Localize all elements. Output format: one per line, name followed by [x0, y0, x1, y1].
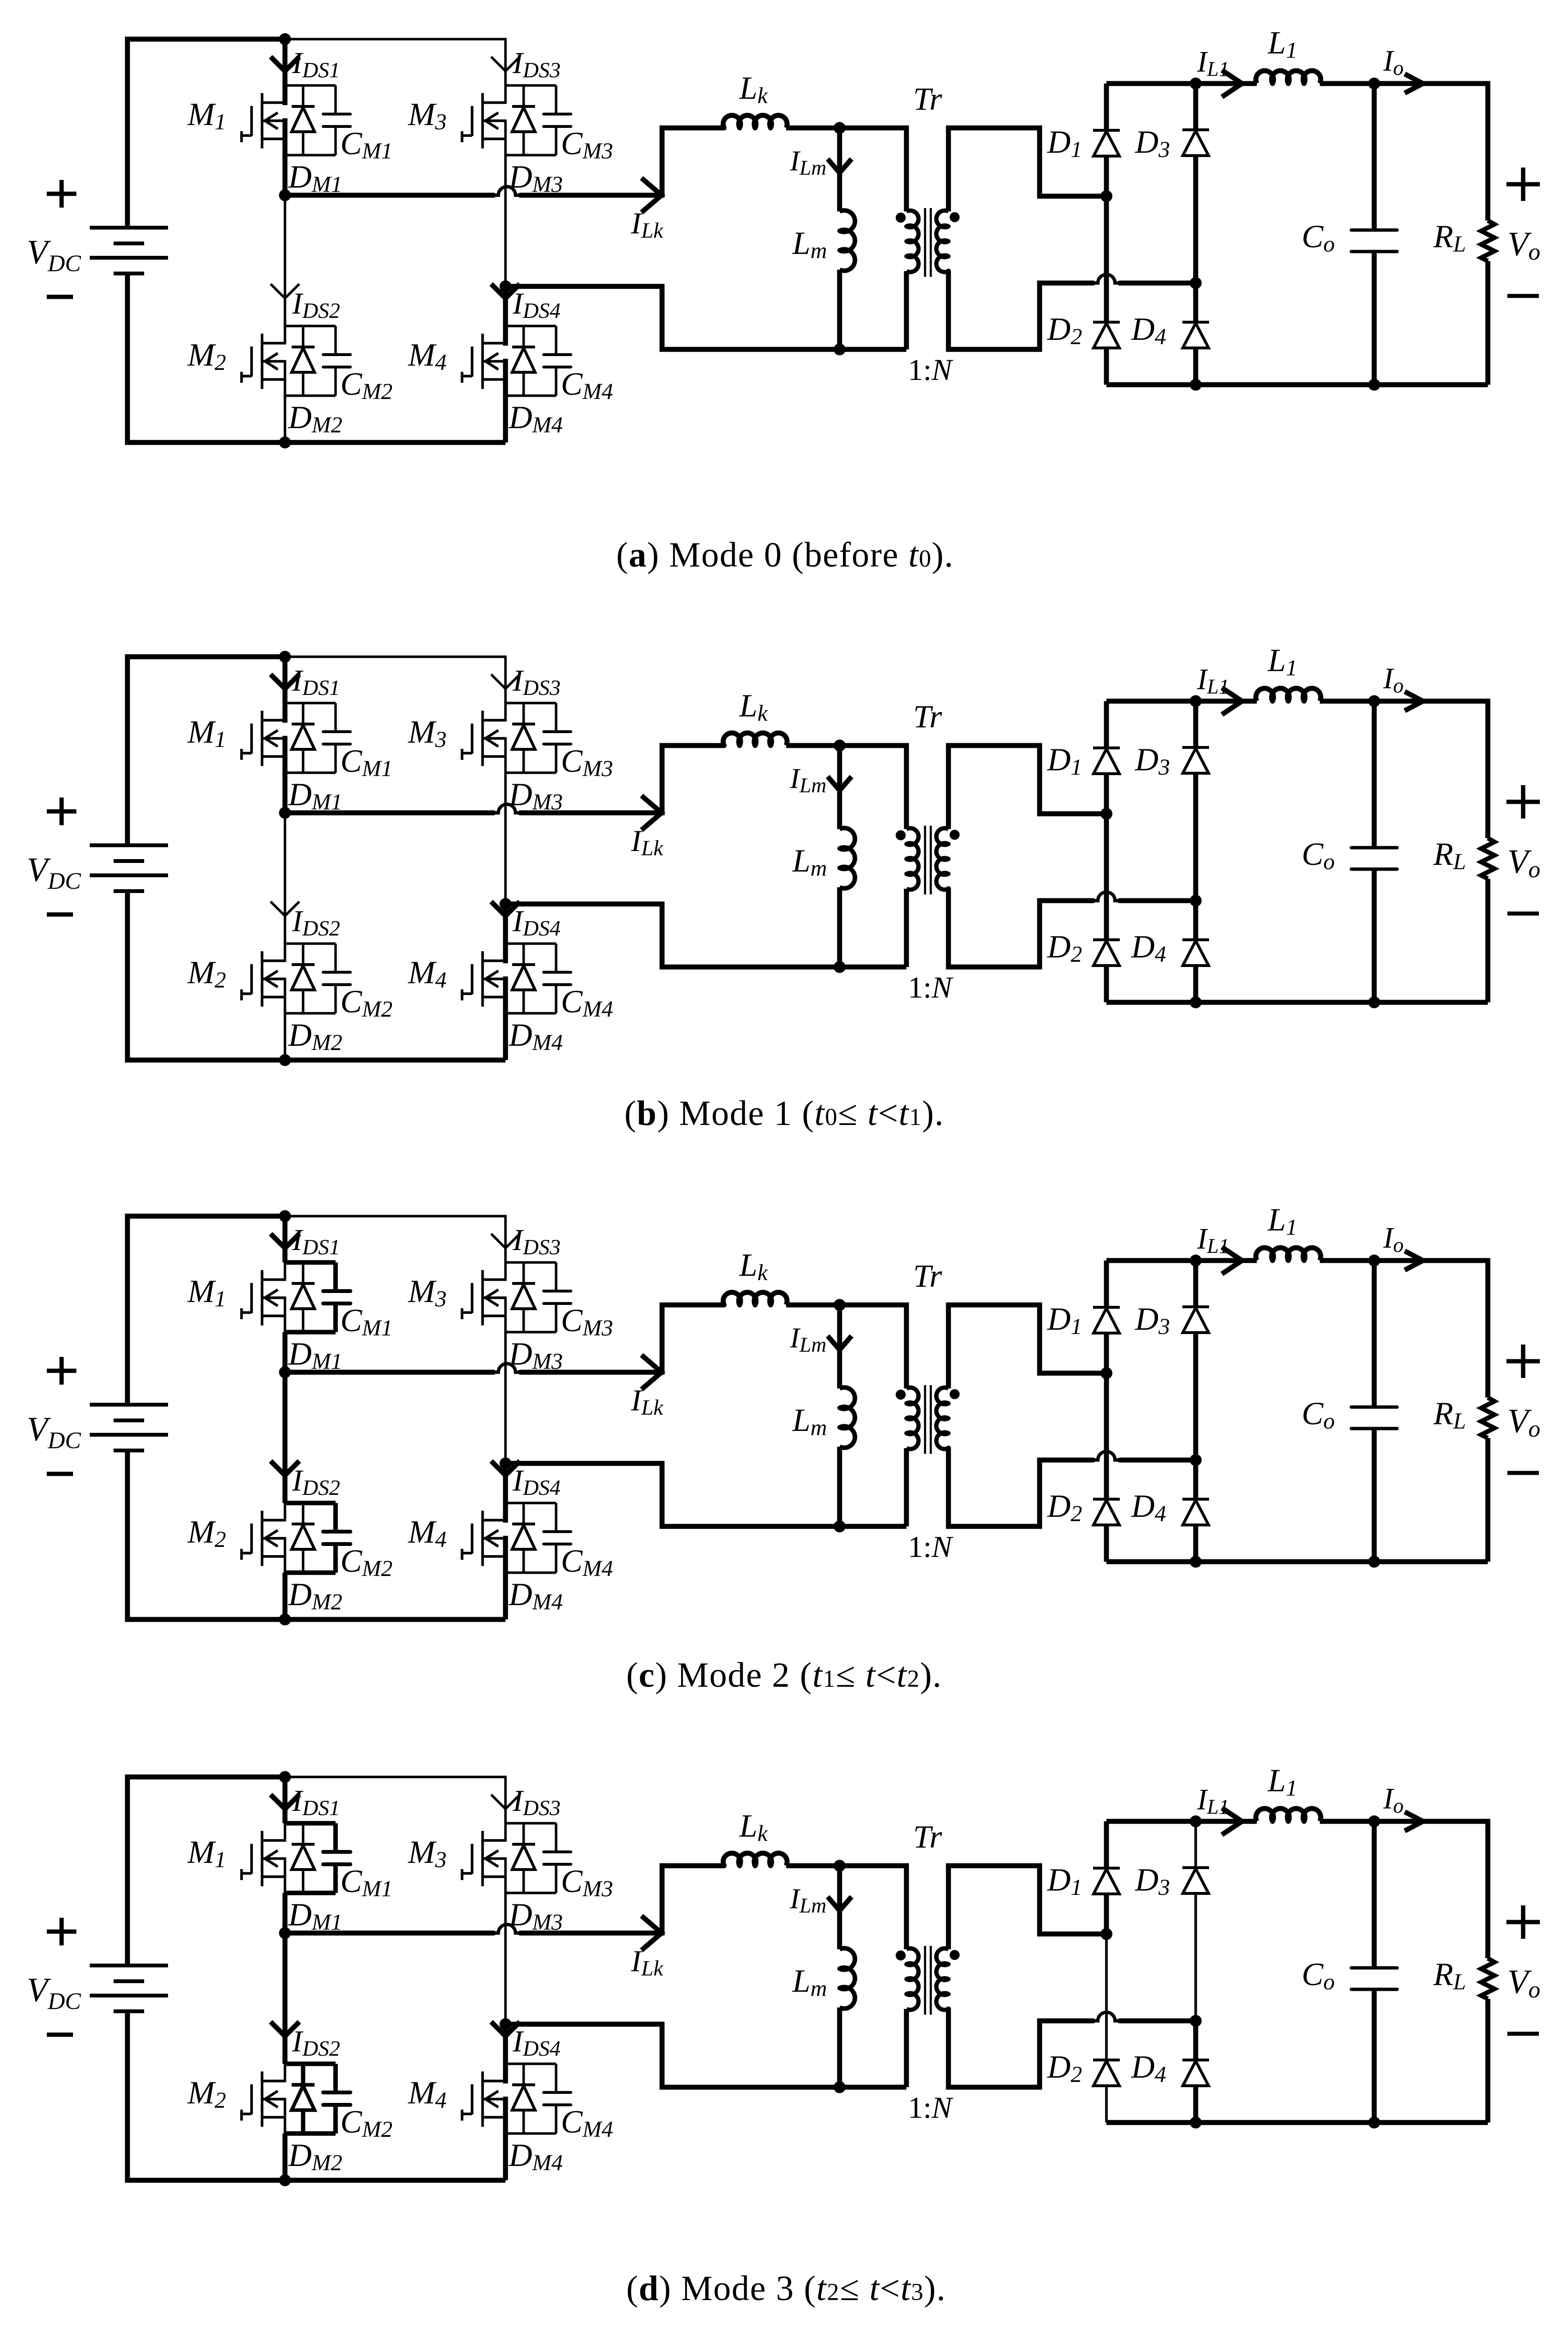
wire M2 drain from midpoint	[284, 195, 286, 326]
capacitor CM1	[323, 85, 350, 155]
wire M2 drain from midpoint	[283, 1933, 288, 2064]
wire battery positive to top rail	[127, 39, 285, 228]
svg-text:1:N: 1:N	[908, 2091, 954, 2124]
wire secondary bottom to rectifier	[948, 1448, 1093, 1526]
wire M1 drain	[283, 1216, 288, 1262]
wire D1 cathode lead	[1104, 84, 1109, 130]
diode D3	[1182, 747, 1209, 773]
wire D4 cathode lead	[1193, 1460, 1199, 1499]
wire M2 loop bottom connector	[285, 2131, 336, 2136]
wire M1 loop top connector	[285, 702, 336, 704]
current arrow IDS2	[271, 1461, 299, 1475]
wire hopover at D1 column	[1093, 2012, 1120, 2021]
transformer core	[925, 208, 931, 277]
inductor Lm	[840, 828, 855, 888]
transistor M1	[242, 1831, 285, 1886]
wire M1 loop bottom connector	[285, 1891, 336, 1895]
wire Lm top lead	[837, 1866, 842, 1949]
node bottom rail at Co	[1368, 2117, 1380, 2129]
inductor L1	[1256, 1248, 1321, 1261]
wire top rail M1 to M3	[285, 39, 505, 85]
wire rail A hop to corner	[520, 1305, 724, 1372]
wire Co bottom lead	[1372, 869, 1377, 1002]
node M3-M4 midpoint	[500, 2018, 512, 2030]
wire M3 loop bottom connector	[505, 1892, 556, 1894]
current arrow ILk	[642, 796, 662, 830]
node D3-D4 midpoint	[1190, 895, 1202, 907]
wire D2 anode lead	[1104, 966, 1109, 1002]
wire battery positive to top rail	[127, 1216, 285, 1405]
wire M2 source rail	[284, 2098, 286, 2134]
node Lm bottom junction	[834, 961, 846, 973]
current arrow ILm	[828, 777, 852, 790]
transformer Tr primary winding	[906, 1948, 918, 2010]
node bottom rail at D4	[1190, 997, 1202, 1009]
wire M2 loop bottom connector	[285, 394, 336, 397]
capacitor CM2	[323, 2064, 350, 2133]
node M3-M4 midpoint	[500, 1458, 512, 1470]
current arrow ILm	[828, 1897, 852, 1911]
diode D1	[1093, 1307, 1120, 1333]
node bottom rail at M2 source	[279, 1614, 291, 1626]
wire hop to D3-D4 node	[1120, 1458, 1196, 1463]
diode D3	[1182, 1868, 1209, 1893]
wire M3 source to M3-M4 node	[504, 1332, 506, 1463]
node top rail at D3	[1190, 1255, 1202, 1267]
wire M3 drain	[504, 702, 506, 703]
wire M3 drain rail	[504, 1822, 506, 1842]
polarity dot primary	[896, 213, 906, 223]
svg-text:(b) Mode 1 (t0≤ t<t1).: (b) Mode 1 (t0≤ t<t1).	[624, 1094, 944, 1133]
diode DM3 (body diode)	[512, 703, 535, 773]
capacitor CM4	[544, 326, 571, 396]
svg-text:(c) Mode 2 (t1≤ t<t2).: (c) Mode 2 (t1≤ t<t2).	[626, 1656, 942, 1695]
current arrow IDS3	[491, 1234, 520, 1248]
wire rail A hop to corner	[520, 1866, 724, 1933]
wire Lm bottom lead	[837, 887, 842, 967]
inductor Lk	[723, 733, 787, 746]
wire D3 cathode lead	[1193, 701, 1199, 747]
current arrow IL1	[1222, 1808, 1242, 1835]
resistor RL	[1481, 838, 1494, 879]
wire M1 source to midpoint node	[283, 1332, 288, 1372]
current arrow Io	[1405, 74, 1423, 93]
wire bridge midpoint B to primary bottom	[505, 904, 906, 967]
wire rectifier top rail	[1106, 699, 1257, 704]
diode DM1 (body diode)	[292, 1262, 315, 1332]
current arrow IDS3	[491, 57, 520, 71]
node D1-D2 midpoint	[1101, 190, 1113, 202]
inductor Lm	[840, 1948, 855, 2008]
wire M3 source rail	[504, 1857, 506, 1894]
node D3-D4 midpoint	[1190, 277, 1202, 289]
diode DM1 (body diode)	[292, 85, 315, 155]
wire M3 loop bottom connector	[505, 771, 556, 774]
diode D2	[1093, 1499, 1120, 1525]
transistor M2	[242, 334, 285, 389]
wire D2 cathode lead	[1104, 1373, 1109, 1499]
node Lm bottom junction	[834, 1521, 846, 1533]
node top rail at M1 drain	[279, 1771, 291, 1783]
svg-text:Tr: Tr	[913, 1258, 942, 1294]
diode DM2 (body diode)	[292, 944, 315, 1013]
diode DM4 (body diode)	[512, 944, 535, 1013]
wire secondary bottom to rectifier	[948, 271, 1093, 349]
node Lk-Lm junction	[834, 1299, 846, 1311]
current arrow IDS2	[271, 284, 299, 298]
wire RL to bottom rail	[1485, 879, 1491, 1002]
wire M4 loop top connector	[505, 1502, 556, 1504]
wire M2 loop bottom connector	[285, 1570, 336, 1575]
wire M1 loop bottom connector	[285, 771, 336, 774]
wire primary bottom lead	[904, 889, 909, 967]
node bottom rail at M2 source	[279, 2175, 291, 2186]
transistor M1	[242, 93, 285, 148]
current arrow IDS4	[491, 902, 520, 916]
minus terminal of VDC	[47, 1472, 73, 1476]
wire D2 cathode lead	[1104, 196, 1109, 322]
battery VDC	[90, 1405, 168, 1450]
wire M2 drain from midpoint	[283, 1372, 288, 1503]
wire rectifier bottom rail	[1106, 382, 1488, 388]
node M1-M2 midpoint	[279, 189, 291, 201]
wire D4 cathode lead	[1193, 2021, 1199, 2060]
transformer core	[925, 1385, 931, 1454]
node top rail at Co	[1368, 1816, 1380, 1828]
wire M4 loop top connector	[505, 325, 556, 327]
transistor M4	[462, 2071, 505, 2127]
diode D2	[1093, 2060, 1120, 2086]
svg-text:(a) Mode 0 (before t0).: (a) Mode 0 (before t0).	[616, 536, 954, 575]
capacitor Co	[1351, 1407, 1397, 1429]
capacitor CM4	[544, 944, 571, 1013]
current arrow IL1	[1222, 70, 1242, 97]
node top rail at Co	[1368, 695, 1380, 707]
transistor M3	[462, 93, 505, 148]
wire M1 drain	[283, 1777, 288, 1823]
wire M3 drain	[504, 1822, 506, 1823]
wire battery negative to bottom rail	[127, 1450, 505, 1619]
wire Co bottom lead	[1372, 252, 1377, 385]
node top rail at M1 drain	[279, 1210, 291, 1222]
diode D4	[1182, 940, 1209, 966]
wire bridge midpoint B to primary bottom	[505, 2024, 906, 2087]
wire M1 source rail	[284, 1857, 286, 1894]
wire bridge midpoint A to Lk corner	[285, 1370, 494, 1375]
wire D2 anode lead	[1104, 1525, 1109, 1562]
wire M4 source to bottom rail	[503, 2133, 508, 2180]
node bottom rail at Co	[1368, 379, 1380, 391]
capacitor CM3	[544, 1262, 571, 1332]
wire M4 drain from M3-M4 node	[503, 904, 508, 944]
wire rail A hop to corner	[520, 128, 724, 195]
plus terminal of Vo	[1506, 1905, 1540, 1939]
transistor M2	[242, 951, 285, 1007]
wire M2 source rail	[284, 977, 286, 1014]
transistor M4	[462, 334, 505, 389]
wire bridge midpoint A to Lk corner	[285, 1931, 494, 1936]
node M3-M4 midpoint	[500, 898, 512, 910]
wire top rail M1 to M3	[285, 1216, 505, 1262]
wire Lk to Lm junction	[786, 1303, 842, 1308]
wire primary bottom lead	[904, 271, 909, 349]
wire M3 source rail	[504, 119, 506, 156]
diode DM4 (body diode)	[512, 326, 535, 396]
wire M3 drain	[504, 84, 506, 85]
wire D1 anode lead	[1104, 1894, 1109, 1934]
node bottom rail at M2 source	[279, 437, 291, 449]
minus terminal of Vo	[1507, 1471, 1539, 1475]
wire Co bottom lead	[1372, 1429, 1377, 1562]
transformer Tr secondary winding	[937, 828, 948, 890]
wire M4 source to bottom rail	[503, 1013, 508, 1060]
current arrow IDS4	[491, 2022, 520, 2036]
current arrow Io	[1405, 692, 1423, 711]
wire hop to D3-D4 node	[1120, 2018, 1196, 2024]
wire battery negative to bottom rail	[127, 891, 505, 1060]
transformer core	[925, 1946, 931, 2015]
transformer Tr primary winding	[906, 210, 918, 272]
wire M3 source rail	[504, 737, 506, 774]
plus terminal of Vo	[1506, 168, 1540, 201]
current arrow ILk	[642, 178, 662, 212]
current arrow ILk	[642, 1916, 662, 1950]
svg-text:1:N: 1:N	[908, 1530, 954, 1564]
wire M4 loop bottom connector	[505, 1571, 556, 1574]
diode DM1 (body diode)	[292, 1823, 315, 1893]
node M3-M4 midpoint	[500, 281, 512, 293]
wire hopover at M3 column	[494, 1924, 520, 1933]
wire bridge midpoint B to primary bottom	[505, 286, 906, 349]
polarity dot secondary	[950, 212, 960, 222]
wire secondary top to rectifier	[948, 128, 1106, 211]
wire M2 source to bottom rail	[283, 2133, 288, 2180]
transistor M1	[242, 1270, 285, 1325]
wire Lk to Lm junction	[786, 1863, 842, 1869]
wire M3 drain rail	[504, 1261, 506, 1281]
plus terminal of VDC	[47, 798, 76, 825]
capacitor CM2	[323, 326, 350, 396]
wire Co top lead	[1372, 84, 1377, 230]
node bottom rail at M2 source	[279, 1054, 291, 1066]
wire M3 loop bottom connector	[505, 154, 556, 156]
node D1-D2 midpoint	[1101, 1367, 1113, 1379]
wire M1 loop bottom connector	[285, 1330, 336, 1335]
wire hopover at M3 column	[494, 1364, 520, 1372]
wire M1 drain	[283, 39, 288, 85]
svg-text:Tr: Tr	[913, 698, 942, 735]
wire D2 cathode lead	[1104, 814, 1109, 940]
node top rail at Co	[1368, 78, 1380, 90]
wire M1 drain rail	[283, 702, 288, 723]
diode DM2 (body diode)	[292, 326, 315, 396]
wire D2 anode lead	[1105, 2086, 1108, 2123]
wire Lm bottom lead	[837, 2007, 842, 2087]
svg-text:1:N: 1:N	[908, 353, 954, 387]
node M1-M2 midpoint	[279, 1927, 291, 1939]
wire M3 loop top connector	[505, 702, 556, 704]
battery VDC	[90, 1965, 168, 2011]
diode D2	[1093, 322, 1120, 348]
wire RL to bottom rail	[1485, 1438, 1491, 1562]
wire bridge midpoint B to primary bottom	[505, 1463, 906, 1526]
capacitor CM3	[544, 85, 571, 155]
diode D4	[1182, 322, 1209, 348]
svg-text:Tr: Tr	[913, 81, 942, 117]
wire M4 loop bottom connector	[505, 2132, 556, 2134]
wire rectifier top rail	[1106, 1819, 1257, 1824]
wire M1 loop bottom connector	[285, 154, 336, 156]
node D3-D4 midpoint	[1190, 1454, 1202, 1466]
wire D1 cathode lead	[1104, 701, 1109, 748]
wire Lk to Lm junction	[786, 126, 842, 131]
current arrow IDS2	[271, 902, 299, 916]
diode D1	[1093, 748, 1120, 774]
inductor Lk	[723, 1853, 787, 1866]
wire M3 source to M3-M4 node	[504, 1893, 506, 2024]
plus terminal of Vo	[1506, 1345, 1540, 1378]
wire M3 drain	[504, 1261, 506, 1262]
wire M2 drain rail	[284, 2063, 286, 2082]
polarity dot secondary	[950, 1389, 960, 1399]
current arrow IDS1	[271, 57, 299, 71]
plus terminal of Vo	[1506, 785, 1540, 819]
capacitor CM1	[323, 1262, 350, 1332]
transistor M4	[462, 1511, 505, 1566]
polarity dot secondary	[950, 1950, 960, 1960]
wire rectifier bottom rail	[1106, 1559, 1488, 1565]
resistor RL	[1481, 221, 1494, 261]
wire D3 anode lead	[1193, 156, 1199, 283]
wire M2 source rail	[284, 1537, 286, 1574]
resistor RL	[1481, 1398, 1494, 1438]
current arrow IDS4	[491, 284, 520, 298]
capacitor Co	[1351, 230, 1397, 252]
diode DM2 (body diode)	[292, 2064, 315, 2133]
node M1-M2 midpoint	[279, 1366, 291, 1378]
wire D1 anode lead	[1104, 774, 1109, 814]
diode D4	[1182, 1499, 1209, 1525]
wire primary top lead	[840, 128, 906, 211]
wire M1 source rail	[283, 118, 288, 156]
wire M4 source to bottom rail	[503, 396, 508, 442]
polarity dot primary	[896, 1951, 906, 1961]
wire M2 source to bottom rail	[284, 1013, 286, 1060]
transformer Tr secondary winding	[937, 1387, 948, 1449]
wire M3 source to M3-M4 node	[504, 773, 506, 904]
minus terminal of VDC	[47, 913, 73, 917]
polarity dot secondary	[950, 830, 960, 840]
wire M3 loop top connector	[505, 84, 556, 86]
wire D3 cathode lead	[1193, 84, 1199, 130]
wire M4 source rail	[503, 1536, 508, 1574]
wire rectifier bottom rail	[1106, 2120, 1488, 2125]
node D3-D4 midpoint	[1190, 2015, 1202, 2027]
wire M2 source to bottom rail	[283, 1573, 288, 1619]
capacitor CM2	[323, 944, 350, 1013]
wire battery positive to top rail	[127, 1777, 285, 1965]
wire hopover at D1 column	[1093, 892, 1120, 901]
wire secondary bottom to rectifier	[948, 889, 1093, 967]
wire D2 cathode lead	[1105, 1934, 1108, 2060]
wire D1 anode lead	[1104, 156, 1109, 196]
wire M1 loop top connector	[285, 1260, 336, 1265]
wire Lm top lead	[837, 1305, 842, 1388]
wire M3 drain rail	[504, 702, 506, 722]
polarity dot primary	[896, 830, 906, 841]
capacitor CM4	[544, 2064, 571, 2133]
wire D1 cathode lead	[1104, 1821, 1109, 1868]
wire M2 source rail	[284, 360, 286, 397]
wire Lm bottom lead	[837, 270, 842, 349]
wire M2 loop top connector	[285, 1501, 336, 1505]
wire secondary top to rectifier	[948, 1305, 1106, 1388]
wire top rail M1 to M3	[285, 1777, 505, 1823]
diode D1	[1093, 1868, 1120, 1894]
transistor M2	[242, 1511, 285, 1566]
node bottom rail at Co	[1368, 1556, 1380, 1568]
wire battery positive to top rail	[127, 657, 285, 845]
node Lm bottom junction	[834, 2081, 846, 2093]
transistor M3	[462, 1831, 505, 1886]
current arrow IDS1	[271, 674, 299, 689]
capacitor Co	[1351, 848, 1397, 869]
minus terminal of VDC	[47, 2033, 73, 2037]
wire M4 loop top connector	[505, 2062, 556, 2065]
wire D3 anode lead	[1193, 1333, 1199, 1460]
transistor M3	[462, 1270, 505, 1325]
wire M4 drain rail	[503, 325, 508, 346]
wire M4 source rail	[503, 359, 508, 397]
wire M3 loop top connector	[505, 1822, 556, 1824]
wire hopover at M3 column	[494, 187, 520, 195]
node bottom rail at Co	[1368, 997, 1380, 1009]
wire Lk to Lm junction	[786, 743, 842, 748]
inductor Lk	[723, 116, 787, 128]
wire rectifier top rail	[1106, 1258, 1257, 1263]
diode DM3 (body diode)	[512, 85, 535, 155]
wire M4 drain rail	[503, 1502, 508, 1523]
wire M2 loop bottom connector	[285, 1012, 336, 1014]
current arrow ILm	[828, 1336, 852, 1350]
wire battery negative to bottom rail	[127, 2011, 505, 2180]
minus terminal of Vo	[1507, 2032, 1539, 2036]
transistor M1	[242, 711, 285, 766]
diode DM4 (body diode)	[512, 1503, 535, 1573]
wire secondary top to rectifier	[948, 1866, 1106, 1949]
wire M1 drain rail	[284, 1822, 286, 1842]
current arrow IL1	[1222, 1247, 1242, 1274]
transformer Tr secondary winding	[937, 1948, 948, 2010]
current arrow ILk	[642, 1355, 662, 1389]
resistor RL	[1481, 1958, 1494, 1999]
wire D4 cathode lead	[1193, 901, 1199, 940]
current arrow IDS3	[491, 1795, 520, 1809]
wire hop to D3-D4 node	[1120, 898, 1196, 904]
wire M4 drain from M3-M4 node	[503, 2024, 508, 2064]
wire M2 drain from midpoint	[284, 813, 286, 944]
wire M4 source rail	[503, 2097, 508, 2134]
wire L1 to output corner	[1320, 84, 1488, 221]
wire M4 drain rail	[503, 2063, 508, 2083]
transformer Tr primary winding	[906, 1387, 918, 1449]
wire primary top lead	[840, 1866, 906, 1949]
current arrow ILm	[828, 159, 852, 173]
wire M1 drain	[283, 657, 288, 703]
wire hopover at M3 column	[494, 804, 520, 813]
wire M4 loop top connector	[505, 942, 556, 945]
node top rail at Co	[1368, 1255, 1380, 1267]
